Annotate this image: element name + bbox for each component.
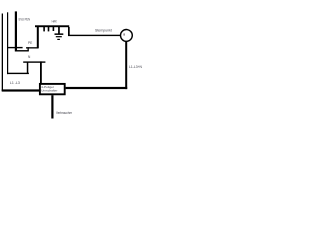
wire star point horizontal xyxy=(68,35,121,36)
wire rail end drop xyxy=(68,27,70,35)
svg-text:HAK: HAK xyxy=(52,19,58,23)
wire switch output to consumer xyxy=(51,95,53,118)
svg-text:PE: PE xyxy=(28,41,32,45)
wire generator feed to switch xyxy=(66,87,128,89)
wire PE link left horizontal xyxy=(7,47,23,48)
svg-text:Sternpunkt: Sternpunkt xyxy=(95,28,112,32)
wire L1-L3 bottom run to switch xyxy=(2,89,40,91)
wire EVU PEN service line xyxy=(15,11,17,51)
generator label mark xyxy=(124,33,125,35)
wire N step top bar xyxy=(23,61,45,62)
wire L1-L3 feeder vertical xyxy=(2,14,3,92)
svg-text:EVU PEN: EVU PEN xyxy=(19,18,31,22)
wire PE link bottom bar xyxy=(16,50,29,51)
wire generator drop L1-L3+N xyxy=(125,41,127,89)
wire N/PEN vertical xyxy=(7,12,8,74)
generator star point circle G1 xyxy=(121,30,133,42)
wire N drop to changeover switch xyxy=(40,61,42,83)
wire PE link right horizontal xyxy=(26,47,39,48)
HAK tick 4 xyxy=(53,27,55,31)
svg-text:L1 -L3: L1 -L3 xyxy=(10,81,20,85)
wire PE link right leg xyxy=(28,47,29,51)
HAK tick 3 xyxy=(48,27,50,31)
svg-text:Umschalter: Umschalter xyxy=(41,89,57,93)
busbar HAK rail xyxy=(35,25,69,27)
HAK tick 2 xyxy=(43,27,45,31)
switch box S1 4-pole changeover xyxy=(40,84,65,94)
svg-text:Verbraucher: Verbraucher xyxy=(56,111,73,115)
wire N horizontal run at bottom of step xyxy=(7,73,29,74)
wire N step left leg xyxy=(27,62,29,73)
svg-text:L1-L3+N: L1-L3+N xyxy=(129,65,143,69)
HAK tick 1 long to PE link xyxy=(37,27,39,48)
ground Betriebserdung xyxy=(55,27,64,40)
